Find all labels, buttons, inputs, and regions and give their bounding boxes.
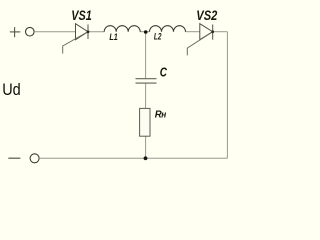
svg-text:L1: L1	[109, 32, 117, 43]
svg-text:C: C	[160, 64, 168, 79]
svg-text:Ud: Ud	[2, 81, 21, 99]
svg-text:VS1: VS1	[71, 8, 92, 23]
svg-text:н: н	[161, 110, 167, 120]
svg-text:VS2: VS2	[196, 8, 217, 23]
svg-text:L2: L2	[154, 32, 162, 43]
